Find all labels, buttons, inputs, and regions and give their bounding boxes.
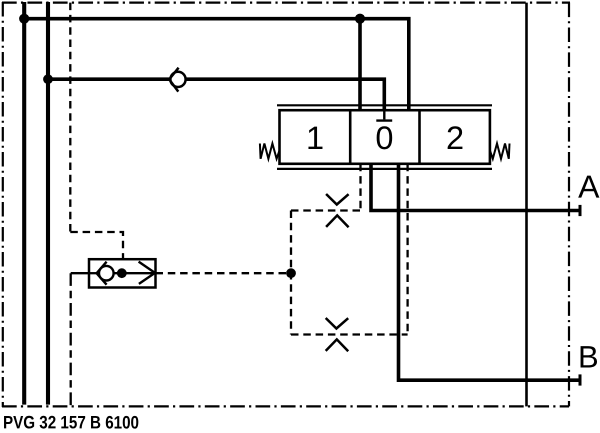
svg-text:B: B <box>578 339 599 374</box>
LS upper branch horizontal <box>291 209 361 211</box>
frame border right (dash-dot) <box>568 3 570 407</box>
junction dot P / top line <box>19 14 29 24</box>
check valve (circle + seat) <box>169 68 185 92</box>
svg-text:2: 2 <box>446 120 464 156</box>
LS upper branch drop from valve <box>359 164 361 211</box>
LS check valve seat stub <box>89 272 97 274</box>
valve box divider 1/0 <box>349 110 352 164</box>
work line B (valve port to port B) <box>399 164 579 380</box>
LS vertical dashed line <box>290 211 292 335</box>
pilot stub into shuttle valve <box>122 259 124 270</box>
svg-text:0: 0 <box>375 120 393 156</box>
pilot line: dashed jog to shuttle valve top <box>70 232 123 259</box>
LS signal line from shuttle to junction <box>156 272 292 274</box>
work line A (valve port to port A) <box>371 164 579 211</box>
svg-text:1: 1 <box>306 120 324 156</box>
blocked port symbol in box 0 <box>376 110 392 120</box>
junction dot LS network <box>286 268 296 278</box>
test point upper (chevrons) <box>326 194 349 227</box>
valve top rail <box>277 104 492 106</box>
valve bottom rail <box>277 168 492 170</box>
LS lower branch horizontal <box>291 333 408 335</box>
valve spool boxes <box>280 110 490 164</box>
wire: check-valve line from T to valve (left segment) <box>48 77 170 81</box>
frame border top (dash-dot) <box>2 1 570 3</box>
port B tick <box>579 374 582 385</box>
LS check valve ball <box>99 266 114 281</box>
LS internal line to outlet <box>114 272 156 274</box>
junction dot top line / pilot drop <box>355 14 365 24</box>
junction dot T / check line <box>43 74 53 84</box>
spring right <box>490 144 509 159</box>
LS shuttle/check valve body <box>89 259 156 287</box>
frame border bottom (dash-dot) <box>2 405 569 407</box>
port A tick <box>579 205 582 216</box>
frame border left (dash-dot) <box>2 2 4 407</box>
svg-text:A: A <box>578 169 600 205</box>
spring left <box>260 144 279 159</box>
wire: check-valve line (right segment) with corner drop into valve <box>186 79 384 119</box>
tank/return vertical line right <box>525 3 528 407</box>
supply line P (thick vertical) <box>22 2 26 405</box>
wire: drop from top line into valve <box>358 19 362 111</box>
test point lower (chevrons) <box>326 318 349 351</box>
wire: top pressure line with corner drop into valve <box>22 19 409 111</box>
svg-text:PVG 32 157 B 6100: PVG 32 157 B 6100 <box>3 412 139 432</box>
LS junction dot (pilot in) <box>117 268 127 278</box>
LS lower branch drop from valve <box>406 164 408 335</box>
LS outlet arrowhead <box>139 262 155 284</box>
tank line T (thick vertical) <box>46 2 50 405</box>
LS check valve seat <box>97 262 107 285</box>
pilot line: dashed vertical from top border <box>69 3 71 232</box>
valve box divider 0/2 <box>418 110 421 164</box>
pilot line: shuttle left port down to bottom border <box>71 272 89 274</box>
